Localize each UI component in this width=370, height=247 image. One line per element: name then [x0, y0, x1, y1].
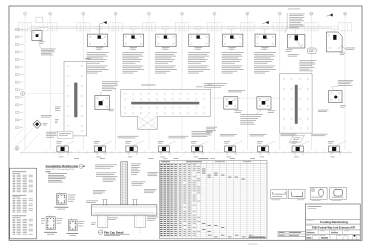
note above F12 [228, 90, 245, 92]
title bottom band cells [306, 235, 359, 240]
footing F13 [257, 97, 271, 109]
grid line 7 [214, 15, 216, 150]
portal frame at grid 3 [76, 23, 90, 31]
pile circles B7 [259, 153, 269, 155]
label F2 [96, 47, 104, 49]
grid line 8 [246, 15, 248, 150]
detail note right 4 [144, 189, 157, 193]
label above B5 [191, 141, 197, 143]
label F1 [39, 41, 45, 43]
note below diamond [46, 132, 58, 138]
section line at flag A [98, 24, 100, 37]
guideway approach line [14, 27, 48, 30]
grid bubble 10 [310, 12, 314, 15]
grid bubble 2 [49, 12, 52, 15]
table title text [161, 160, 251, 163]
pile cap C wall bar [131, 102, 199, 105]
note left of cap A [55, 107, 61, 111]
detail note top left [95, 165, 117, 169]
footing F6 [223, 34, 243, 47]
leader lower footing [231, 141, 242, 146]
bar shape 4 glyph [334, 188, 343, 196]
bearing mark above footing 9 [332, 27, 338, 30]
detail note left 2 [96, 173, 116, 177]
leader F9 [340, 46, 346, 49]
leader lower footing [299, 141, 310, 146]
bearing mark above footing 1 [35, 27, 41, 30]
general note block top right [289, 14, 305, 28]
bar shape 1 glyph [273, 192, 286, 194]
left abutment tick 8 [15, 81, 23, 83]
label F10 [109, 109, 115, 111]
footing B3 [126, 146, 137, 152]
title block agency text [308, 206, 322, 209]
detail note right 1 [131, 164, 141, 175]
portal frame at grid 2 [43, 23, 57, 31]
pile cap detail column [121, 162, 128, 205]
footing F14 [329, 91, 342, 103]
pile cap A outline [64, 61, 87, 136]
leader under F3 [132, 47, 134, 51]
leader under F7 [264, 47, 266, 51]
cage2 right leaders [57, 218, 63, 223]
pile ticks along lower line [45, 152, 350, 154]
table title above frame [163, 157, 215, 160]
column cage detail 3 [68, 218, 77, 231]
span label [174, 157, 179, 160]
note above cap B [299, 60, 316, 71]
grid bubble 8 [246, 12, 249, 15]
label below B3 [128, 156, 132, 159]
note above diamond [41, 115, 52, 117]
label below B6 [227, 156, 232, 159]
pier stub lines [38, 28, 335, 34]
mid alignment line [211, 97, 280, 99]
label F5 [195, 47, 203, 49]
portal frame at grid 1 [18, 23, 32, 31]
bracket for note block [284, 13, 288, 32]
left abutment tick 10 [15, 96, 23, 98]
footing F15 diamond [33, 120, 41, 128]
left abutment tick 5 [15, 59, 23, 61]
note block F2 b [87, 66, 109, 74]
note block F3 b [122, 66, 144, 74]
note above B2 [118, 136, 139, 138]
grid bubble 4 [114, 12, 117, 15]
portal frame at grid 6 [175, 23, 189, 31]
grid bubble 9 [278, 12, 281, 15]
footing F9 chamfered [326, 32, 342, 52]
notes list [48, 173, 67, 182]
bar shape 2 subcaption [297, 199, 304, 202]
label F13 [268, 110, 276, 112]
note above F14 [338, 80, 354, 86]
dim text above cap C [141, 85, 213, 88]
leader under F4 [164, 47, 166, 51]
note block F2 a [87, 52, 109, 63]
legend block 3 [12, 215, 33, 234]
footing F8 [287, 35, 305, 49]
note under F8 [288, 54, 299, 56]
leader F13 note [256, 109, 262, 114]
ground ticks under cap [91, 215, 153, 217]
section flag C [327, 13, 333, 16]
pile circles B5 [193, 153, 203, 155]
span label [250, 157, 255, 160]
cage2 left leaders [41, 218, 45, 223]
caption column cage detail 1 [54, 207, 68, 210]
left abutment tick 2 [15, 36, 23, 38]
pile cap detail caption [98, 230, 129, 236]
pile circles B1 [59, 153, 69, 155]
label above B1 [56, 141, 62, 143]
portal frame at grid 5 [142, 23, 156, 31]
note above B6 [220, 134, 237, 136]
detail note inside cap [108, 218, 118, 220]
grid line 1 [24, 15, 26, 150]
grid line 10 [310, 15, 312, 150]
left abutment tick 14 [15, 127, 23, 129]
label F6 [228, 47, 236, 49]
plan title "Foundation Reinforcing Plan" [46, 164, 86, 171]
label above B8 [292, 141, 298, 143]
title block line 2 [306, 223, 361, 225]
portal frame at grid 8 [241, 23, 255, 31]
pile cap C tab brace [138, 115, 158, 130]
cage1 leaders [68, 195, 76, 202]
svg-text:Scale: 1/8" = 1'-0" see Dwg: Scale: 1/8" = 1'-0" see Dwg S-110 [46, 169, 74, 171]
grid line 6 [181, 15, 183, 150]
grid line 4 [115, 15, 117, 150]
label F12 [235, 110, 243, 112]
legend panel box [10, 168, 37, 239]
grid bubble 3 [82, 12, 85, 15]
bar shape 1 box [271, 190, 287, 199]
note below F13 [240, 114, 263, 124]
portal frame at grid 9 [273, 23, 287, 31]
label above B6 [224, 141, 230, 143]
framed label box above B1 [58, 132, 74, 139]
bar shape 2 glyph [292, 192, 303, 197]
bar shape 4 box [330, 188, 347, 200]
leader lower footing [264, 141, 275, 146]
pile circles B8 [294, 153, 304, 155]
bearing mark above footing 6 [229, 27, 235, 30]
grid bubble 5 [147, 12, 150, 15]
detail note left 3 [103, 176, 118, 182]
legend block 1 [12, 171, 33, 192]
label F4 [162, 47, 170, 49]
table row lines [159, 166, 267, 237]
note above B3 [169, 136, 189, 138]
caption column cage detail 3 [66, 233, 78, 236]
footing F7 [255, 34, 275, 47]
note block F4 a [155, 52, 177, 63]
pile cap C outline [121, 90, 211, 130]
label below B5 [194, 156, 199, 159]
bearing mark above footing 7 [262, 27, 268, 30]
leader under F5 [197, 47, 199, 51]
trapezoid marker below cap B [289, 135, 305, 143]
bar shape 3 box [310, 188, 327, 200]
leader lower footing [133, 141, 144, 146]
pile label left [91, 223, 96, 225]
pile cap A pile dots [68, 65, 83, 132]
bar schedule table frame [159, 161, 267, 239]
leader under F6 [231, 47, 233, 51]
sheet title text [307, 220, 348, 224]
pile cap B outline [280, 74, 312, 133]
grid line 5 [148, 15, 150, 150]
cage3 leaders [78, 221, 84, 226]
span label [74, 157, 79, 160]
title block frame [306, 204, 361, 240]
footing B9 [329, 146, 340, 152]
span label [100, 157, 105, 160]
leader lower footing [165, 141, 176, 146]
label above B3 [125, 141, 131, 143]
note above B7 [250, 134, 267, 136]
note above B8 [281, 134, 297, 136]
svg-text:Footing Reinforcing: Footing Reinforcing [320, 220, 348, 224]
legend block 2 [12, 195, 33, 213]
column cage detail 1 [56, 192, 66, 205]
label F7 [261, 47, 269, 49]
detail note right 3 [132, 182, 146, 186]
note left mid band [206, 127, 217, 133]
note block F1 [41, 49, 56, 56]
svg-text:F330 Federal Way Link Extensio: F330 Federal Way Link Extension F/R [312, 227, 355, 230]
portal frame at grid 11 [338, 23, 352, 31]
bearing mark above footing 2 [96, 27, 102, 30]
note block F5 a [188, 52, 210, 63]
label above B2 [94, 141, 100, 143]
grid line 3 [82, 15, 84, 150]
footing F3 [123, 34, 143, 47]
left abutment tick 1 [15, 28, 23, 30]
grid bubble 6 [180, 12, 183, 15]
bearing mark above footing 4 [163, 27, 169, 30]
pile cap B pile dots [283, 78, 309, 129]
label F14 [340, 105, 346, 107]
grid line 9 [279, 15, 281, 150]
label F9 [340, 53, 346, 55]
grid bubble 11 [343, 12, 346, 15]
left abutment tick 9 [15, 89, 23, 91]
portal frame at grid 10 [305, 23, 319, 31]
footing B1 [57, 146, 68, 152]
note above B5 [192, 131, 213, 137]
footing B6 [225, 146, 236, 152]
note block F7 b [254, 66, 276, 74]
tiny text above note block [288, 8, 300, 11]
pile cap detail column ties [121, 164, 127, 204]
footing B4 [158, 146, 169, 152]
column cage detail 2 [46, 215, 55, 230]
label below B1 [59, 156, 64, 159]
plan title detail bubble [79, 164, 83, 168]
leader lower footing [198, 141, 209, 146]
label below B2 [96, 156, 101, 159]
pile circles B2 [96, 153, 106, 155]
guideway edge line lower [48, 28, 331, 30]
grid line 11 [344, 15, 346, 150]
bar shape 3 caption [312, 196, 323, 199]
portal frame at grid 4 [109, 23, 123, 31]
section flag A [101, 21, 107, 24]
project title text [307, 225, 356, 229]
label diamond [43, 123, 48, 125]
title block line 1 [306, 219, 361, 221]
svg-text:A: A [22, 92, 24, 96]
pile cap A column bar [74, 83, 77, 118]
dim text above cap A [85, 57, 91, 60]
note block F10 [102, 81, 119, 90]
bearing mark above footing 5 [195, 27, 201, 30]
rebar hooks above cap [102, 200, 137, 206]
bar shape 2 box [288, 190, 305, 199]
left abutment tick 3 [15, 44, 23, 46]
pile circles B4 [160, 153, 170, 155]
span label [230, 157, 235, 160]
note block F3 a [122, 52, 144, 63]
bar shape 1 subcaption [271, 199, 280, 202]
label below B9 [331, 156, 336, 159]
note block F4 b [155, 66, 177, 74]
guideway edge line upper [30, 26, 331, 28]
pile cap B column bar [295, 85, 298, 124]
footing B7 [258, 146, 269, 152]
label above B4 [158, 141, 164, 143]
detail note left 5 [86, 201, 98, 203]
table column lines [163, 161, 260, 239]
footing F12 [224, 97, 238, 109]
bearing mark above footing 3 [130, 27, 136, 30]
leader F1 note [39, 45, 41, 48]
lower alignment line [20, 151, 352, 153]
caption column cage detail 2 [44, 232, 57, 235]
pile circles B3 [128, 153, 138, 155]
note block F6 b [222, 66, 244, 74]
table body text left section [160, 164, 200, 236]
bar shape 2 caption [296, 195, 303, 198]
note left of F14 [318, 110, 329, 112]
pile stubs below cap [97, 215, 145, 233]
grid bubble 1 [23, 12, 26, 15]
detail note right of pile [147, 217, 158, 221]
footing F10 [95, 96, 110, 110]
footing B8 [292, 146, 303, 152]
title mid band cells [306, 230, 361, 235]
revision rows [278, 231, 306, 236]
label below B7 [260, 156, 265, 159]
span label [149, 157, 154, 160]
table header row [159, 163, 267, 165]
pile cap C pile dots [125, 93, 206, 114]
pile cap detail cap block [91, 205, 156, 215]
label F8 [286, 49, 293, 51]
left abutment tick 12 [15, 111, 23, 113]
pile circles B9 [330, 153, 340, 155]
leader F10 [101, 92, 103, 95]
leader lower footing [335, 141, 346, 146]
left abutment tick 4 [15, 51, 23, 53]
leader F14 [332, 86, 338, 90]
table scattered entries [202, 169, 252, 238]
leader lower footing [101, 141, 112, 146]
note box near F8 [308, 48, 317, 54]
leader under F2 [98, 47, 100, 51]
footing F4 [156, 34, 176, 47]
footing B2 [94, 146, 105, 152]
label above B9 [328, 141, 334, 143]
svg-text:Pile Cap Detail: Pile Cap Detail [104, 230, 124, 234]
pile circles B6 [226, 153, 236, 155]
skew leader lines lower left [14, 127, 40, 155]
grid line 2 [49, 15, 51, 150]
label F3 [130, 47, 138, 49]
portal frame at grid 7 [208, 23, 222, 31]
note block left of F12 [204, 83, 227, 87]
label below B4 [160, 156, 165, 159]
left abutment tick 11 [15, 104, 23, 106]
left abutment tick 7 [15, 74, 23, 76]
table footer text [249, 237, 266, 238]
footing F2 [88, 34, 108, 47]
row bubble B [15, 147, 19, 151]
column box above footing F1 [36, 17, 43, 22]
plot stamp below border [248, 243, 257, 246]
grid bubble 7 [213, 12, 216, 15]
row bubble A [21, 92, 65, 96]
detail note right 2 [148, 172, 159, 176]
footing F1 [32, 31, 42, 41]
title block line 3 [306, 229, 361, 231]
detail note left 4 [93, 190, 106, 194]
notes heading [46, 170, 51, 173]
note right of F9 [346, 48, 356, 50]
leader lower footing [64, 141, 75, 146]
note block F6 a [222, 52, 244, 63]
note block F5 b [188, 66, 210, 74]
left abutment tick 6 [15, 66, 23, 68]
footing F5 [189, 34, 209, 47]
bearing mark above footing 8 [293, 27, 299, 30]
bar shape 1 caption [272, 195, 282, 198]
section flag B [263, 21, 269, 24]
note above B9 [312, 134, 328, 136]
bar shape 3 glyph [312, 188, 323, 196]
small note left low [55, 119, 59, 123]
note block F7 a [254, 52, 276, 63]
bar shape 4 caption [332, 196, 344, 199]
footing B5 [192, 146, 203, 152]
left abutment tick 13 [15, 119, 23, 121]
label above B7 [257, 141, 263, 143]
label below B8 [294, 156, 299, 159]
